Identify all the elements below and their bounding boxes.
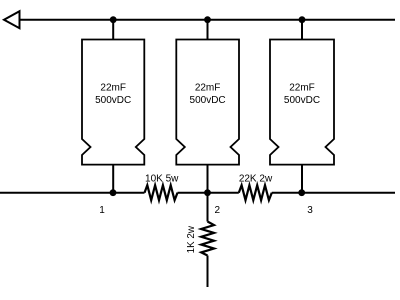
wire C3 bottom to node 3 (301, 165, 303, 193)
wire bottom rail left segment (0, 192, 145, 194)
arrow terminal (left, input) (4, 11, 20, 28)
svg-text:500vDC: 500vDC (190, 95, 226, 106)
capacitor C3 body (270, 40, 334, 165)
svg-text:10K 5w: 10K 5w (145, 174, 179, 185)
resistor R2 zigzag (239, 185, 272, 200)
svg-text:22mF: 22mF (289, 82, 315, 93)
wire node 2 down to R3 (207, 193, 209, 222)
capacitor C1 body (82, 40, 144, 165)
resistor R1 zigzag (145, 185, 178, 200)
junction dot node 1 (110, 189, 117, 196)
junction dot top node A (110, 16, 117, 23)
junction dot node 2 (204, 189, 211, 196)
svg-text:22mF: 22mF (195, 82, 221, 93)
svg-text:1K 2w: 1K 2w (186, 225, 197, 253)
wire stub top rail to C3 (301, 20, 303, 40)
capacitor C2 body (176, 40, 239, 165)
junction dot top node B (204, 16, 211, 23)
junction dot top node C (299, 16, 306, 23)
svg-text:22K 2w: 22K 2w (239, 174, 273, 185)
wire C1 bottom to node 1 (112, 165, 114, 193)
svg-text:1: 1 (99, 205, 105, 216)
svg-text:3: 3 (307, 205, 313, 216)
svg-text:500vDC: 500vDC (284, 95, 320, 106)
wire R3 to open end (207, 256, 209, 288)
wire stub top rail to C1 (112, 20, 114, 40)
junction dot node 3 (298, 189, 305, 196)
wire top rail (20, 19, 396, 21)
svg-text:500vDC: 500vDC (95, 95, 131, 106)
wire stub top rail to C2 (207, 20, 209, 40)
svg-text:2: 2 (215, 205, 221, 216)
wire C2 bottom to node 2 (207, 165, 209, 193)
wire bottom rail right segment (272, 192, 395, 194)
resistor R3 zigzag vertical (201, 222, 214, 256)
svg-text:22mF: 22mF (100, 82, 126, 93)
wire bottom rail middle segment (178, 192, 239, 194)
